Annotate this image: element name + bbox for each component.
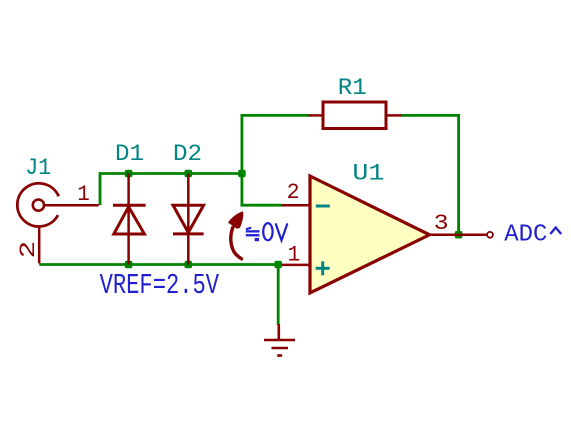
op-amp U1 body — [310, 176, 430, 293]
svg-text:3: 3 — [434, 211, 449, 236]
diode D1 cathode bar — [113, 204, 146, 207]
svg-text:J1: J1 — [25, 155, 51, 182]
ground symbol — [264, 324, 295, 356]
inverting input minus sign — [316, 205, 330, 208]
svg-text:U1: U1 — [352, 160, 384, 187]
connector J1 body arc — [17, 183, 98, 263]
svg-text:2: 2 — [287, 180, 300, 205]
op-amp output lead pin 3 — [430, 234, 488, 237]
diode D1 triangle — [114, 207, 145, 234]
diode D2 lead — [187, 174, 190, 265]
approx-equal symbol of 0V note — [246, 227, 260, 242]
wire: bottom VREF rail — [39, 263, 278, 266]
svg-text:D1: D1 — [115, 141, 144, 168]
J1 pin 1 lead — [44, 204, 99, 207]
op-amp pin 1 lead — [282, 264, 311, 267]
svg-text:2: 2 — [16, 241, 41, 259]
junction at output node — [455, 231, 463, 239]
svg-text:R1: R1 — [338, 75, 367, 102]
resistor R1 right lead — [386, 114, 401, 117]
diode D1 lead — [127, 174, 130, 265]
wire: feedback right vertical down to output node — [401, 115, 459, 234]
junction at D2 top — [185, 170, 193, 178]
wire: feedback left vertical + pin2 run — [242, 115, 310, 205]
diode D2 triangle (pointing down) — [173, 205, 204, 232]
annotation arrow (curved, maroon) — [231, 228, 242, 259]
op-amp pin 2 lead — [282, 204, 311, 207]
junction at D2 bottom — [185, 261, 193, 269]
wire: ground stub — [277, 265, 280, 326]
svg-text:1: 1 — [77, 182, 90, 207]
non-inverting input plus sign — [316, 261, 330, 275]
svg-text:VREF=2.5V: VREF=2.5V — [100, 269, 220, 302]
junction at pin1/ground T — [274, 261, 282, 269]
svg-text:D2: D2 — [173, 141, 202, 168]
node A junction (top-left T) — [238, 170, 246, 178]
wire: top rail from BNC pin1 corner to node A — [100, 174, 242, 206]
diode D2 cathode bar — [173, 232, 204, 235]
resistor R1 body — [323, 102, 386, 129]
0V note text — [263, 223, 287, 240]
svg-text:ADC: ADC — [504, 221, 547, 248]
resistor R1 left lead — [309, 114, 324, 117]
svg-text:1: 1 — [288, 243, 301, 268]
J1 pin 2 lead — [38, 227, 41, 264]
junction at D1 top — [125, 170, 133, 178]
junction at D1 bottom — [125, 261, 133, 269]
output open-circle terminal — [487, 232, 493, 238]
